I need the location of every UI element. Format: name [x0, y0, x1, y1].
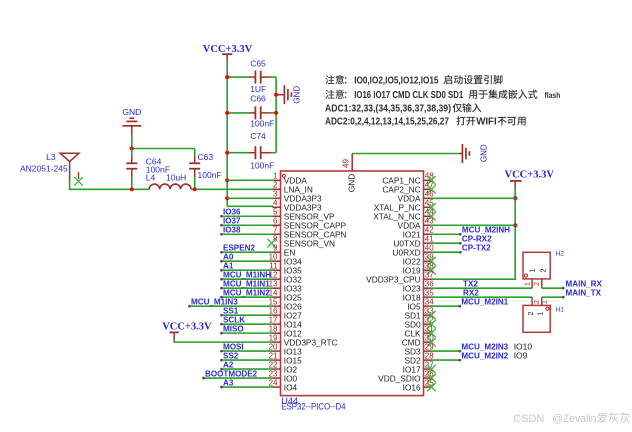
pin 29 SD3 / net MCU_M2IN3 — [404, 341, 532, 356]
svg-text:RX2: RX2 — [463, 288, 479, 297]
IC U44 ESP32--PICO--D4 body — [281, 171, 424, 396]
pin 13 IO33 / net MCU_M1IN1 — [220, 279, 302, 293]
svg-text:41: 41 — [425, 235, 434, 244]
power port VCC+3.3V (right) — [505, 170, 555, 189]
svg-text:36: 36 — [425, 279, 434, 288]
svg-text:IO36: IO36 — [223, 207, 241, 216]
svg-text:WIFI: WIFI — [476, 117, 497, 128]
svg-text:17: 17 — [269, 315, 278, 324]
junction: caps-vertical/C66 — [274, 111, 278, 115]
pin 49 GND (top) — [341, 154, 356, 193]
svg-text:1: 1 — [528, 268, 537, 272]
pin 20 IO13 / net MOSI — [220, 342, 302, 356]
pin 32 SD0 — [404, 315, 435, 329]
watermark CSDN @Zevalin — [513, 412, 630, 425]
ground GND (sideways, by C65) — [276, 85, 301, 104]
svg-text:A0: A0 — [223, 252, 234, 261]
svg-text:100nF: 100nF — [198, 170, 222, 180]
wire: rail elbow to pin 4 — [227, 205, 273, 207]
note line 2 — [325, 90, 560, 101]
svg-text:43: 43 — [425, 217, 434, 226]
pin 23 IO0 / net BOOTMODE2 — [202, 369, 297, 383]
pin 45 XTAL_P_NC — [374, 199, 436, 213]
pin 6 SENSOR_CAPP / net IO37 — [220, 216, 346, 230]
pin 44 XTAL_N_NC — [373, 208, 436, 222]
wire: VCC vertical rail (right) — [431, 189, 516, 280]
svg-text:C65: C65 — [250, 59, 266, 69]
svg-text:13: 13 — [269, 279, 278, 288]
svg-text:A3: A3 — [223, 378, 234, 387]
svg-text:ADC2:0,2,4,12,13,14,15,25,26,2: ADC2:0,2,4,12,13,14,15,25,26,27 — [325, 117, 449, 128]
svg-text:23: 23 — [269, 369, 278, 378]
note line 4 — [325, 116, 526, 127]
pin 22 IO2 / net A2 — [220, 360, 297, 374]
svg-text:CP-RX2: CP-RX2 — [462, 234, 492, 243]
svg-text:IO16 IO17 CMD CLK SD0 SD1: IO16 IO17 CMD CLK SD0 SD1 — [354, 90, 463, 101]
junction: C64/RF line — [130, 187, 134, 191]
svg-text:16: 16 — [269, 306, 278, 315]
junction: rail/pin46 — [513, 196, 517, 200]
svg-text:GND: GND — [122, 107, 141, 117]
power port VCC+3.3V (top) — [203, 44, 253, 64]
svg-text:VCC+3.3V: VCC+3.3V — [162, 322, 212, 333]
svg-text:H2: H2 — [556, 250, 565, 257]
junction: C63/RF line — [193, 187, 197, 191]
pin 39 IO22 — [403, 253, 436, 267]
wire: L4 to chip pin 2 — [191, 188, 274, 190]
capacitor C64 100nF — [126, 149, 137, 190]
wire: pin3 to VCC rail — [227, 197, 273, 199]
capacitor C74 100nF — [227, 131, 276, 170]
junction: rail/pin3 — [225, 196, 229, 200]
svg-text:2: 2 — [534, 282, 541, 286]
svg-text:@Zevalin: @Zevalin — [552, 413, 596, 425]
svg-text:1: 1 — [525, 282, 532, 286]
pin 12 IO32 / net MCU_M1INH — [220, 270, 302, 284]
pin 34 IO5 / net MCU_M2IN1 — [407, 297, 508, 311]
svg-text:flash: flash — [545, 90, 561, 100]
svg-text:18: 18 — [269, 324, 278, 333]
svg-text:21: 21 — [269, 351, 278, 360]
antenna L3 AN2051-245 — [20, 152, 83, 186]
pin 7 SENSOR_CAPN / net IO38 — [220, 225, 346, 239]
svg-text:IO9: IO9 — [514, 350, 528, 360]
junction: caps-vertical/GND tap — [274, 93, 278, 97]
svg-text:28: 28 — [425, 351, 434, 360]
svg-text:MCU_M2INH: MCU_M2INH — [462, 225, 510, 234]
svg-text:35: 35 — [425, 288, 434, 297]
svg-text:L3: L3 — [46, 152, 56, 162]
svg-text:IO16: IO16 — [403, 382, 421, 392]
connector H2 (2-pin header) — [523, 250, 564, 288]
svg-text:10: 10 — [269, 253, 278, 262]
junction: GND/C64 — [130, 146, 134, 150]
pin 11 IO35 / net A1 — [220, 261, 302, 275]
pin 26 VDD_SDIO — [378, 369, 436, 383]
svg-text:L4: L4 — [146, 172, 156, 182]
svg-text:VCC+3.3V: VCC+3.3V — [505, 170, 555, 181]
pin 37 VDD3P3_CPU — [366, 270, 434, 284]
pin 16 IO27 / net SS1 — [220, 306, 302, 320]
pin 17 IO14 / net SCLK — [220, 315, 302, 329]
svg-text:MCU_M1INH: MCU_M1INH — [223, 270, 271, 279]
wire: caps right-side vertical — [275, 77, 277, 153]
svg-text:11: 11 — [269, 262, 278, 271]
pin 27 IO17 — [403, 360, 436, 374]
svg-text:IO37: IO37 — [223, 216, 241, 225]
ground GND (above C64) — [122, 107, 141, 135]
svg-text:A2: A2 — [223, 360, 234, 369]
svg-text:C74: C74 — [250, 131, 266, 141]
svg-text:MCU_M1IN1: MCU_M1IN1 — [223, 279, 270, 288]
wire: GND stem down to junction — [131, 135, 133, 149]
pin 19 VDD3P3_RTC — [269, 333, 338, 347]
svg-text:CP-TX2: CP-TX2 — [462, 243, 491, 252]
svg-text:1UF: 1UF — [250, 84, 266, 94]
pin 41 U0TXD / net CP-RX2 — [393, 234, 492, 248]
svg-text:40: 40 — [425, 244, 434, 253]
pin 14 IO25 / net MCU_M1IN2 — [220, 288, 302, 302]
svg-text:GND: GND — [479, 144, 488, 162]
svg-text:37: 37 — [425, 270, 434, 279]
pin 1 VDDA — [273, 172, 308, 186]
svg-text:2: 2 — [526, 311, 535, 315]
svg-text:6: 6 — [273, 217, 278, 226]
wire: antenna stem — [69, 180, 71, 191]
wire: RF line to L4 — [70, 188, 150, 190]
note line 3 — [325, 103, 481, 114]
svg-text:22: 22 — [269, 360, 278, 369]
pin 2 LNA_IN — [273, 181, 313, 195]
pin 30 CMD — [402, 333, 436, 347]
svg-text:SS1: SS1 — [223, 306, 239, 315]
svg-text:GND: GND — [293, 86, 302, 104]
svg-text:34: 34 — [425, 297, 434, 306]
wire: H1 pin1 to MAIN_TX — [542, 288, 602, 298]
svg-text:46: 46 — [425, 190, 434, 199]
capacitor C65 1UF — [227, 59, 276, 94]
svg-text:1: 1 — [536, 311, 545, 315]
svg-text:4: 4 — [273, 199, 278, 208]
svg-text:49: 49 — [341, 159, 350, 168]
svg-text:GND: GND — [346, 174, 356, 192]
svg-text:C63: C63 — [198, 152, 214, 162]
svg-text:MAIN_TX: MAIN_TX — [566, 288, 602, 297]
svg-text:5: 5 — [273, 208, 278, 217]
wire: VCC vertical rail (left) — [226, 63, 228, 206]
connector H1 (2-pin header) — [523, 297, 564, 332]
junction: rail/C74 — [225, 151, 229, 155]
junction: rail/C65 — [225, 75, 229, 79]
svg-text:24: 24 — [269, 378, 278, 387]
svg-text:SCLK: SCLK — [223, 315, 245, 324]
pin 21 IO15 / net SS2 — [220, 351, 302, 365]
wire: across to C63 top — [132, 148, 195, 150]
svg-text:7: 7 — [273, 226, 278, 235]
note line 1 — [325, 75, 502, 86]
svg-text:AN2051-245: AN2051-245 — [20, 164, 68, 174]
svg-text:2: 2 — [539, 268, 548, 272]
svg-text:MCU_M2IN2: MCU_M2IN2 — [461, 351, 508, 360]
svg-text:2: 2 — [534, 300, 541, 304]
pin 4 VDDA3P3 — [273, 199, 322, 213]
pin 40 U0RXD / net CP-TX2 — [392, 243, 491, 257]
pin 3 VDDA3P3 — [273, 190, 322, 204]
inductor L4 10uH — [146, 172, 191, 189]
pin 8 SENSOR_VN — [267, 235, 335, 249]
pin 43 VDDA — [398, 217, 516, 231]
svg-text:ESPEN2: ESPEN2 — [223, 243, 255, 252]
svg-text:C66: C66 — [250, 94, 266, 104]
pin 42 IO21 / net MCU_M2INH — [403, 225, 511, 239]
pin 25 IO16 — [403, 378, 436, 392]
svg-text:IO38: IO38 — [223, 225, 241, 234]
svg-text:MCU_M2IN1: MCU_M2IN1 — [461, 297, 508, 306]
pin 9 EN / net ESPEN2 — [220, 243, 295, 257]
svg-text:20: 20 — [269, 342, 278, 351]
svg-text:9: 9 — [273, 244, 278, 253]
pin 46 VDDA — [398, 190, 516, 204]
svg-text:CSDN: CSDN — [513, 413, 544, 425]
wire: pin49 to GND — [352, 153, 459, 155]
svg-text:2: 2 — [273, 181, 278, 190]
pin-1 marker — [282, 174, 285, 177]
svg-text:1: 1 — [273, 172, 278, 181]
svg-text:MOSI: MOSI — [223, 342, 244, 351]
pin 15 IO26 / net MCU_M1IN3 — [188, 297, 302, 311]
svg-text:MISO: MISO — [223, 324, 244, 333]
svg-text:ESP32--PICO--D4: ESP32--PICO--D4 — [281, 402, 345, 412]
svg-text:15: 15 — [269, 297, 278, 306]
svg-text:VCC+3.3V: VCC+3.3V — [203, 44, 253, 55]
svg-text:MCU_M1IN2: MCU_M1IN2 — [223, 288, 270, 297]
svg-text:14: 14 — [269, 288, 278, 297]
svg-text:10uH: 10uH — [166, 172, 186, 182]
capacitor C66 100nF — [227, 94, 276, 129]
pin 35 IO18 — [403, 288, 532, 302]
svg-text:BOOTMODE2: BOOTMODE2 — [205, 369, 258, 378]
pin 10 IO34 / net A0 — [220, 252, 302, 266]
pin 5 SENSOR_VP / net IO36 — [220, 207, 335, 221]
capacitor C63 100nF — [189, 149, 200, 190]
svg-text:29: 29 — [425, 342, 434, 351]
svg-text:MAIN_RX: MAIN_RX — [566, 279, 603, 288]
svg-text:ADC1:32,33,(34,35,36,37,38,39): ADC1:32,33,(34,35,36,37,38,39) — [325, 103, 451, 114]
svg-text:100nF: 100nF — [250, 119, 274, 129]
power port VCC+3.3V (middle left) — [162, 322, 212, 340]
wire: H2 pin2 to MAIN_RX — [542, 279, 603, 289]
svg-text:3: 3 — [273, 190, 278, 199]
junction: rail/C66 — [225, 111, 229, 115]
svg-text:TX2: TX2 — [463, 279, 478, 288]
pin 24 IO4 / net A3 — [220, 378, 297, 392]
svg-text:1: 1 — [542, 300, 549, 304]
svg-text:100nF: 100nF — [250, 160, 274, 170]
ground GND (sideways, right of pin 49) — [459, 144, 488, 163]
wire: pin1 to VCC rail — [227, 179, 273, 181]
svg-text:MCU_M2IN3: MCU_M2IN3 — [461, 342, 508, 351]
svg-text:SS2: SS2 — [223, 351, 239, 360]
pin 33 SD1 — [404, 306, 435, 320]
svg-text:IO0,IO2,IO5,IO12,IO15: IO0,IO2,IO5,IO12,IO15 — [354, 75, 439, 86]
pin 47 CAP2_NC — [382, 181, 435, 195]
svg-text:42: 42 — [425, 226, 434, 235]
pin 18 IO12 / net MISO — [220, 324, 302, 338]
pin 28 SD2 / net MCU_M2IN2 — [404, 350, 527, 365]
svg-text:19: 19 — [269, 333, 278, 342]
junction: rail/pin43 — [513, 223, 517, 227]
svg-text:H1: H1 — [556, 307, 565, 314]
svg-text:MCU_M1IN3: MCU_M1IN3 — [191, 297, 238, 306]
pin 48 CAP1_NC — [382, 172, 435, 186]
svg-text:A1: A1 — [223, 261, 234, 270]
pin 38 IO19 — [403, 262, 436, 276]
pin 36 IO23 — [403, 279, 532, 293]
pin 31 CLK — [404, 324, 435, 338]
wire: VCC to pin 19 — [174, 339, 273, 342]
svg-text:IO4: IO4 — [284, 382, 298, 392]
junction: rail/pin1 — [225, 178, 229, 182]
